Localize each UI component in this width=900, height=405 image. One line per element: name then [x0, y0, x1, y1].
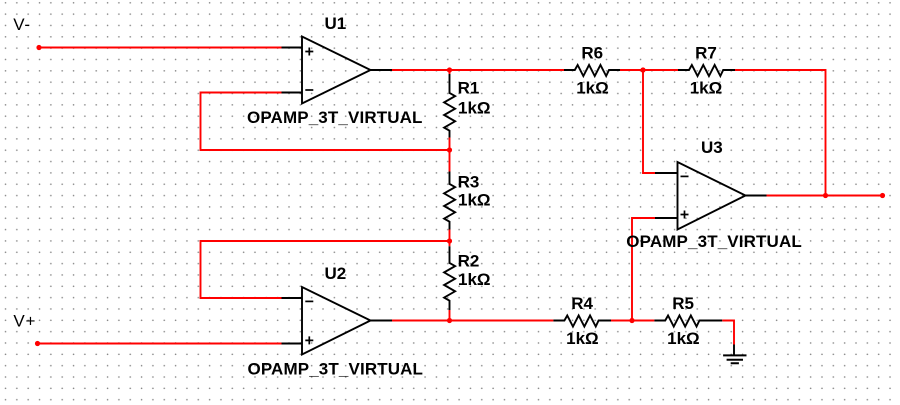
svg-text:OPAMP_3T_VIRTUAL: OPAMP_3T_VIRTUAL	[626, 232, 802, 251]
resistor R2	[444, 246, 455, 310]
svg-text:U3: U3	[701, 138, 723, 157]
wire R3 to node E	[449, 230, 451, 242]
wire R7 to right corner down to output row	[735, 70, 826, 196]
junction node D	[629, 318, 634, 323]
wire U3 output to terminal	[767, 195, 883, 197]
svg-text:1kΩ: 1kΩ	[458, 270, 491, 289]
svg-text:R5: R5	[672, 294, 694, 313]
op-amp U1	[282, 37, 393, 104]
wire V- input to U1 +	[39, 47, 282, 49]
wire R4 to R5	[611, 320, 654, 322]
svg-text:1kΩ: 1kΩ	[576, 79, 609, 98]
svg-text:R1: R1	[458, 79, 480, 98]
wire node D to U3 plus	[632, 218, 655, 321]
svg-text:OPAMP_3T_VIRTUAL: OPAMP_3T_VIRTUAL	[247, 108, 423, 127]
wire node B to R1	[449, 70, 451, 74]
wire U1 feedback (minus pin to node A)	[201, 93, 450, 151]
op-amp U3	[655, 162, 767, 230]
resistor R1	[444, 74, 455, 138]
svg-text:1kΩ: 1kΩ	[690, 79, 723, 98]
svg-text:V-: V-	[13, 15, 31, 34]
wire node E to R2	[449, 241, 451, 246]
junction node C	[640, 67, 645, 72]
svg-text:OPAMP_3T_VIRTUAL: OPAMP_3T_VIRTUAL	[248, 359, 424, 378]
terminal output	[880, 193, 885, 198]
ground	[723, 345, 746, 364]
svg-text:R4: R4	[571, 294, 593, 313]
junction node A	[447, 147, 452, 152]
resistor R5	[654, 316, 722, 327]
wire R2 to node F	[449, 310, 451, 321]
wire R6 to R7	[620, 69, 678, 71]
svg-text:U1: U1	[325, 14, 347, 33]
wire node B to R6	[450, 69, 565, 71]
junction output node	[823, 193, 828, 198]
terminal V-	[36, 45, 41, 50]
op-amp U2	[282, 287, 393, 355]
svg-text:V+: V+	[13, 311, 36, 330]
svg-text:R7: R7	[695, 43, 717, 62]
wire U2 feedback (minus pin to node E)	[201, 241, 450, 298]
resistor R7	[678, 65, 735, 76]
svg-text:1kΩ: 1kΩ	[667, 329, 700, 348]
wire node A to R3	[449, 150, 451, 172]
svg-text:R3: R3	[458, 173, 480, 192]
wire V+ input to U2 +	[38, 343, 282, 345]
resistor R3	[444, 172, 455, 230]
wire U1 output to node B	[392, 69, 450, 71]
svg-text:R6: R6	[581, 43, 603, 62]
svg-text:1kΩ: 1kΩ	[458, 191, 491, 210]
junction node B	[447, 67, 452, 72]
svg-text:R2: R2	[458, 252, 480, 271]
terminal V+	[35, 341, 40, 346]
junction node E	[447, 238, 452, 243]
svg-text:1kΩ: 1kΩ	[458, 99, 491, 118]
wire R1 to node A	[449, 138, 451, 151]
junction node F	[447, 318, 452, 323]
resistor R4	[553, 316, 611, 327]
wire U2 output to R4	[392, 320, 553, 322]
svg-text:1kΩ: 1kΩ	[566, 329, 599, 348]
wire node C to U3 minus	[643, 70, 655, 173]
svg-text:U2: U2	[325, 264, 347, 283]
wire R5 to ground	[722, 321, 734, 345]
resistor R6	[564, 65, 620, 76]
